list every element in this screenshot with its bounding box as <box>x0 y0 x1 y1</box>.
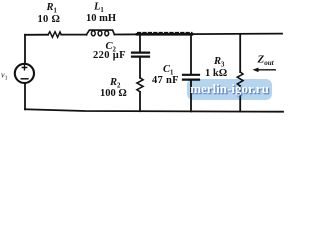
wire top-left vertical <box>24 35 26 64</box>
wire top horizontal right of L1 <box>114 33 137 35</box>
wire C1 to bottom <box>190 81 192 112</box>
resistor R2 <box>137 78 143 92</box>
Zout arrow <box>253 68 277 73</box>
inductor L1 <box>86 30 114 35</box>
capacitor C2 <box>132 51 149 53</box>
wire top horizontal rightmost <box>192 33 282 36</box>
wire C2 to R2 <box>139 58 141 78</box>
svg-text:220 μF: 220 μF <box>93 50 126 61</box>
resistor R3 top lead <box>239 34 241 72</box>
svg-text:47 nF: 47 nF <box>152 75 179 86</box>
svg-text:10 mH: 10 mH <box>86 13 116 24</box>
source V1 circle <box>15 64 34 83</box>
wire R2 to bottom <box>139 92 141 111</box>
wire R3 to bottom <box>239 86 241 112</box>
wire between R1 and L1 <box>61 34 86 36</box>
capacitor C2 top lead <box>139 34 141 51</box>
resistor R1 <box>48 32 61 38</box>
svg-text:10 Ω: 10 Ω <box>38 14 61 25</box>
svg-text:merlin-igor.ru: merlin-igor.ru <box>190 81 269 96</box>
resistor R3 <box>237 72 243 86</box>
wire thick node segment <box>137 33 192 36</box>
svg-text:100 Ω: 100 Ω <box>100 88 127 99</box>
svg-text:1 kΩ: 1 kΩ <box>205 68 227 79</box>
wire top horizontal left segment <box>25 34 48 36</box>
wire bottom-left vertical <box>24 84 26 110</box>
capacitor C1 top lead <box>190 34 192 74</box>
capacitor C1 <box>183 74 199 76</box>
watermark box <box>187 79 272 100</box>
wire bottom horizontal <box>25 109 283 111</box>
source minus <box>21 78 28 80</box>
wire dashed artifact above top wire <box>138 31 193 33</box>
source plus <box>22 65 26 70</box>
